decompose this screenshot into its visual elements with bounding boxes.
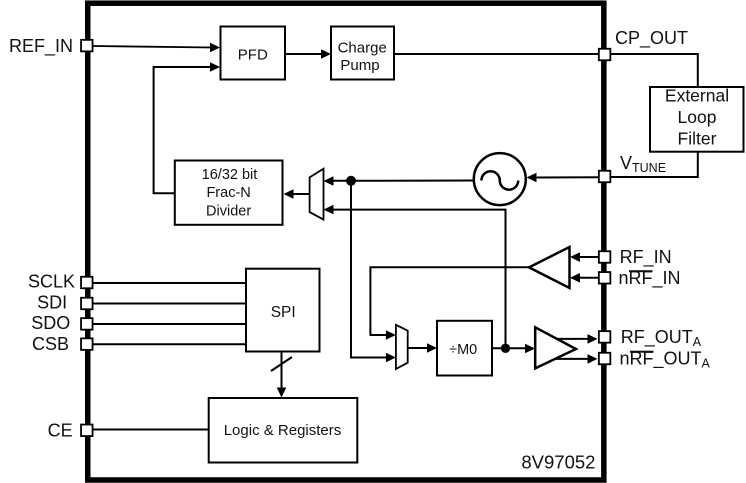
label SCLK [28,272,75,292]
svg-text:CP_OUT: CP_OUT [615,28,688,49]
wire Frac-N feedback to PFD [154,62,220,193]
svg-text:Loop: Loop [678,107,717,127]
svg-text:16/32 bit: 16/32 bit [202,167,258,183]
block Logic & Registers [209,398,358,463]
label CSB [32,334,69,354]
wire output buffer to nRF_OUT_A pin [555,354,598,364]
wire CSB to SPI [93,343,246,345]
pin CSB [81,338,93,350]
svg-text:8V97052: 8V97052 [521,452,595,473]
wire RF_IN pin to input buffer [570,252,600,262]
svg-text:RF_OUTA: RF_OUTA [621,327,702,349]
wire SDI to SPI [93,303,246,305]
label part number 8V97052 [521,452,595,473]
svg-text:Charge: Charge [338,39,387,56]
wire CP_OUT to External Loop Filter [609,54,698,87]
label V_TUNE [620,153,666,175]
wire nRF_IN pin to input buffer [570,273,600,283]
pin nRF_OUT_A [599,353,611,365]
svg-text:SPI: SPI [271,304,296,321]
svg-text:REF_IN: REF_IN [9,36,73,57]
junction node VCO output [346,176,356,186]
svg-text:PFD: PFD [238,47,268,64]
svg-text:SCLK: SCLK [28,272,75,292]
wire divider junction to mux M1 lower input [324,205,506,348]
pin V_TUNE [599,171,611,183]
wire External Loop Filter to V_TUNE pin [609,152,698,177]
wire REF_IN to PFD [93,43,220,53]
wire mux M1 output to Frac-N Divider [284,189,310,199]
pin SDO [81,318,93,330]
block divider M0 [437,321,492,376]
wire input buffer to mux M2 upper input [370,267,529,340]
pin RF_IN [599,251,611,263]
VCO [474,153,526,205]
label RF_IN [620,247,672,268]
block Charge Pump [331,27,394,80]
block External Loop Filter [650,86,744,152]
label SDI [37,292,67,312]
input buffer RF_IN amplifier [529,247,570,288]
svg-text:Logic & Registers: Logic & Registers [224,422,342,439]
pin CE [81,425,93,437]
junction node divider M0 output [501,344,510,353]
svg-text:CE: CE [48,421,73,441]
wire mux M2 output to divider M0 [408,343,437,353]
wire Charge Pump to CP_OUT pin [394,53,600,55]
block 16/32 bit Frac-N Divider [175,161,283,225]
wire SPI to Logic & Registers bus [271,352,292,398]
wire SCLK to SPI [93,282,246,284]
mux M2 [396,325,408,369]
svg-text:Filter: Filter [678,129,717,149]
svg-text:Frac-N: Frac-N [206,185,250,201]
pin SDI [81,298,93,310]
chip outline 8V97052 [88,3,604,480]
output buffer RF_OUT amplifier [535,327,576,368]
svg-text:CSB: CSB [32,334,69,354]
pin SCLK [81,277,93,289]
wire PFD to Charge Pump [285,49,331,59]
block SPI [246,269,320,352]
label RF_OUT_A [621,327,702,349]
pin CP_OUT [599,49,611,61]
wire SDO to SPI [93,323,246,325]
svg-text:RF_IN: RF_IN [620,247,672,268]
label nRF_IN [619,268,681,289]
label nRF_OUT_A [620,348,711,370]
block PFD [221,27,286,80]
wire output buffer to RF_OUT_A pin [557,334,598,344]
mux M1 [310,169,324,220]
label REF_IN [9,36,73,57]
wire CE to Logic & Registers [93,429,209,431]
svg-text:÷M0: ÷M0 [449,342,477,358]
pin nRF_IN [599,272,611,284]
label CE [48,421,73,441]
svg-text:Pump: Pump [340,57,379,74]
label SDO [31,313,70,333]
svg-text:External: External [665,86,729,106]
pin REF_IN [81,40,93,52]
svg-text:SDI: SDI [37,292,67,312]
svg-text:Divider: Divider [206,203,251,219]
wire divider M0 to output buffer [492,344,535,354]
wire VCO junction to mux M2 lower input [351,181,396,362]
svg-text:SDO: SDO [31,313,70,333]
wire VCO to mux M1 upper input [324,176,475,186]
label CP_OUT [615,28,688,49]
wire V_TUNE to VCO [527,173,601,183]
pin RF_OUT_A [599,331,611,343]
